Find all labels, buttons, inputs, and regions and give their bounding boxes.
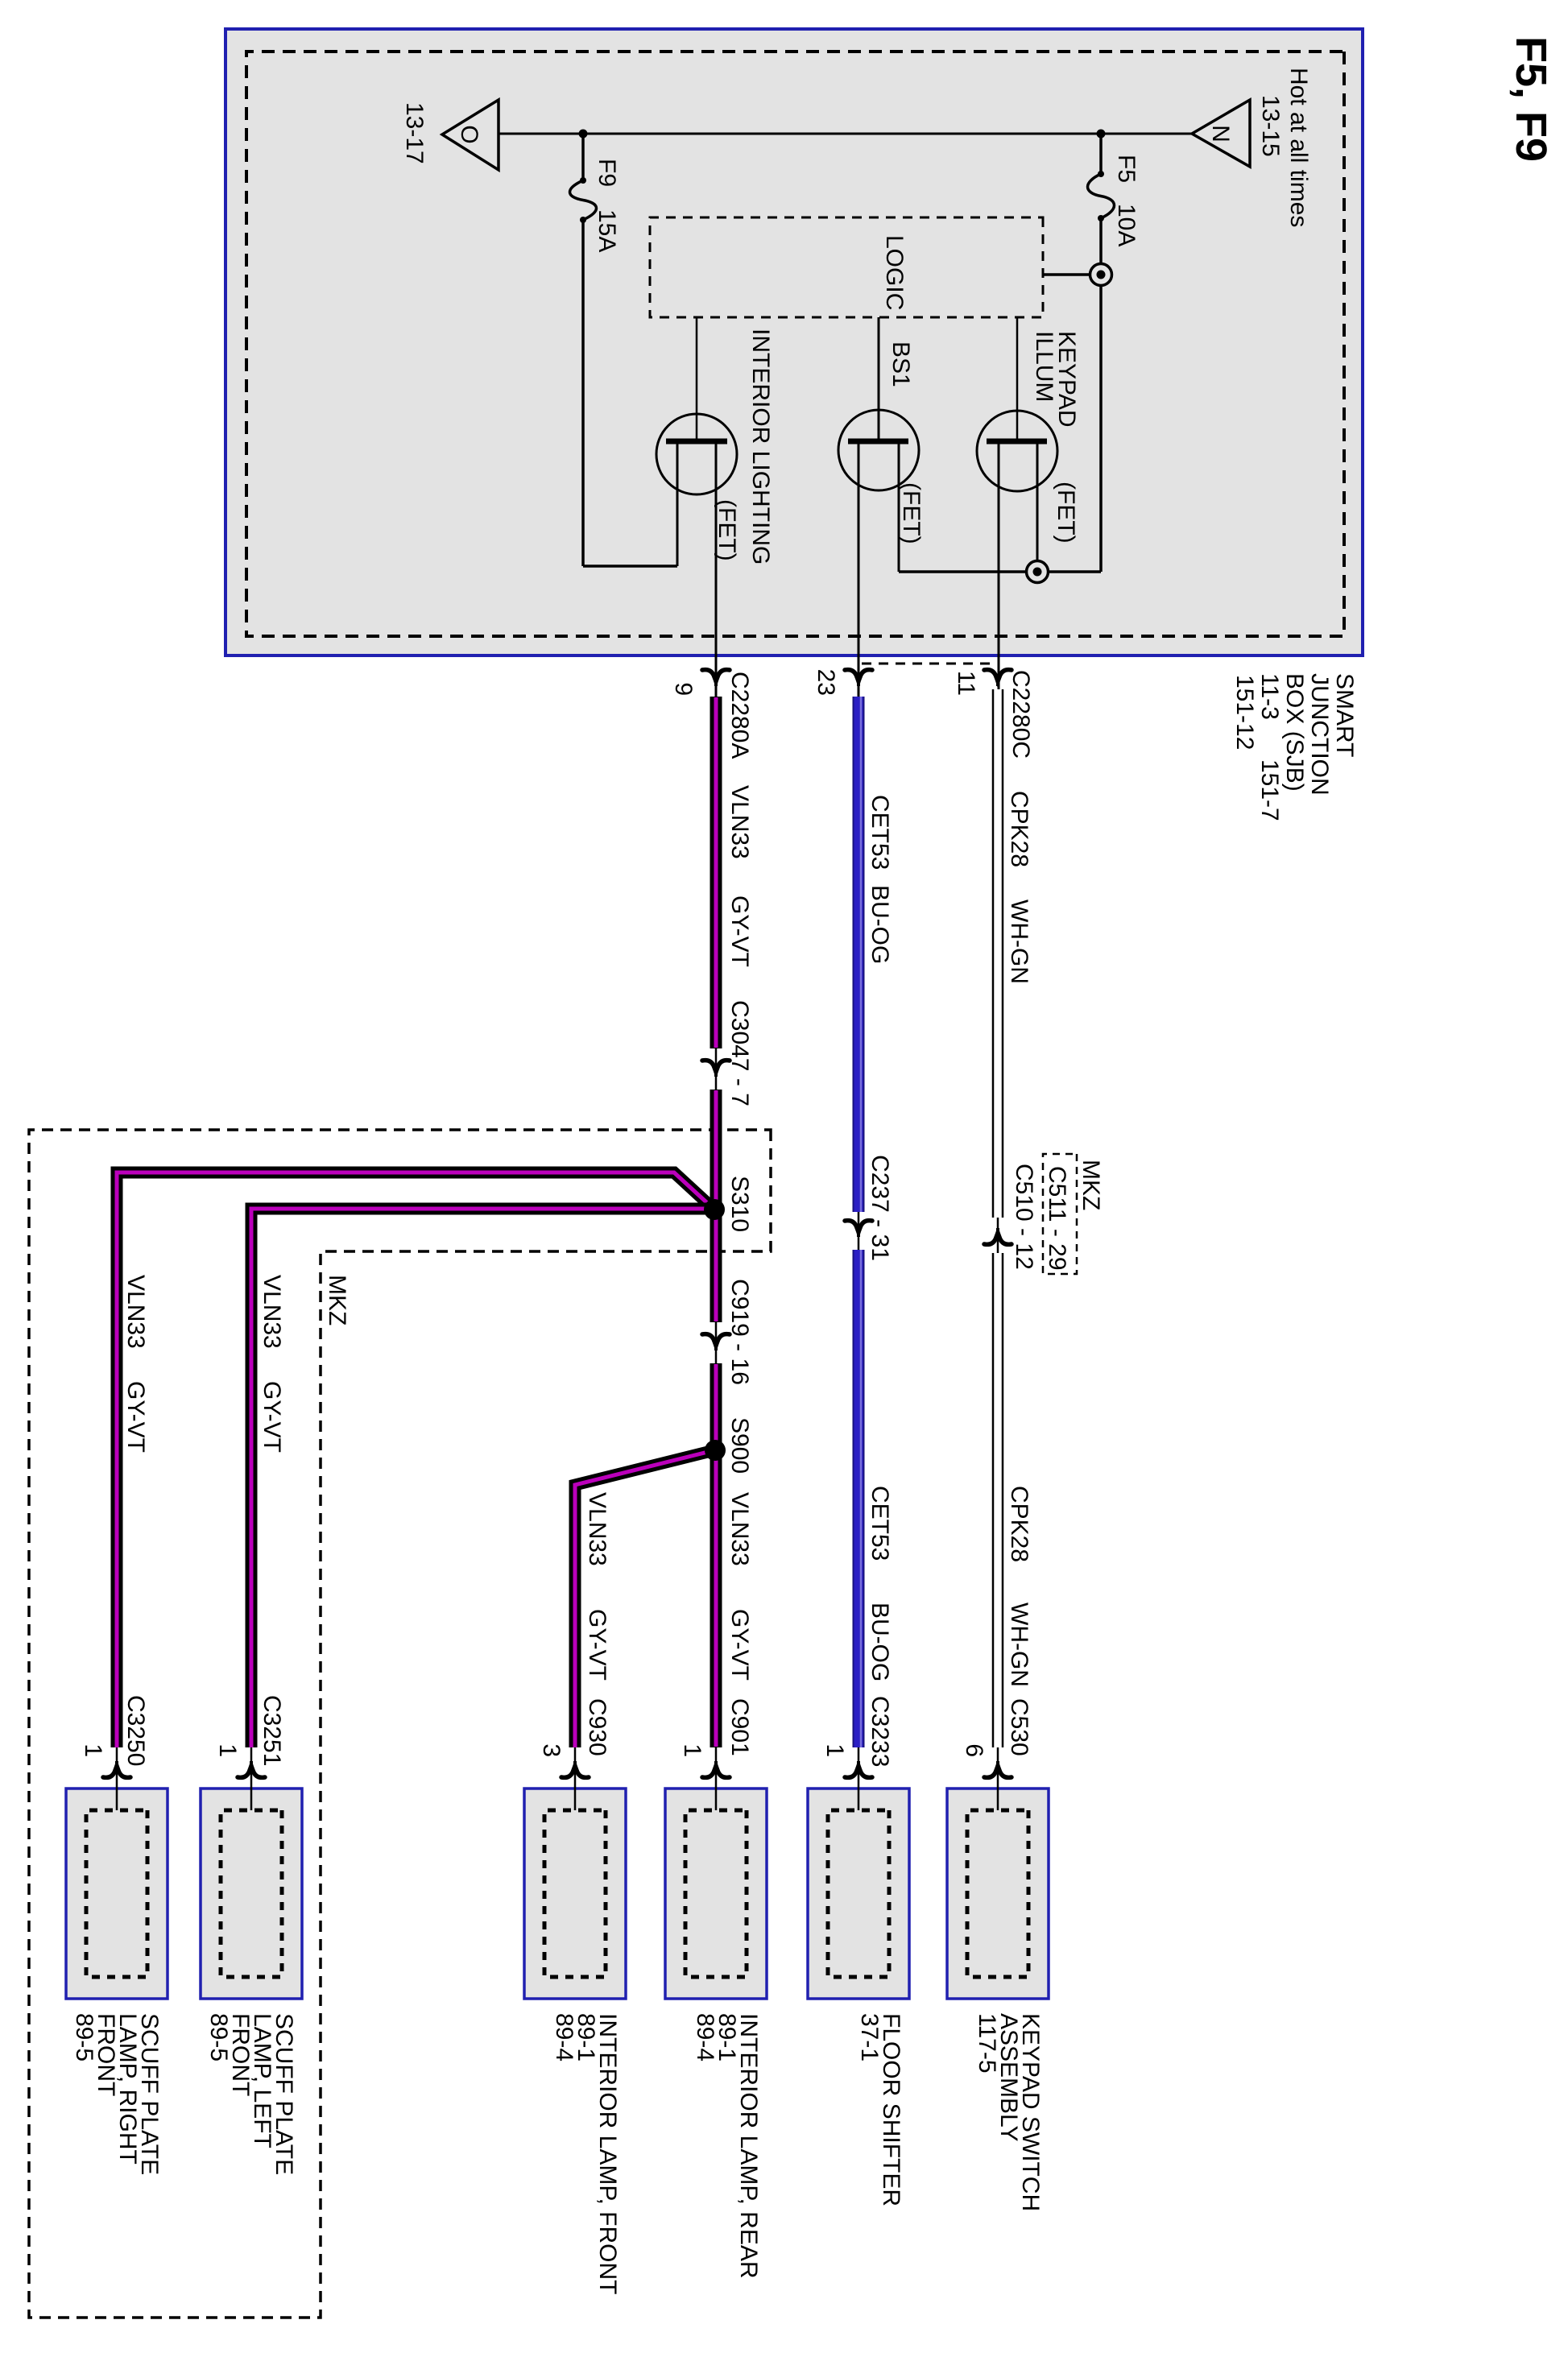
svg-text:C930: C930 (584, 1698, 610, 1756)
svg-text:VLN33: VLN33 (726, 785, 753, 859)
svg-text:1: 1 (679, 1743, 705, 1757)
svg-text:(FET): (FET) (1053, 482, 1079, 544)
svg-text:MKZ: MKZ (1078, 1160, 1104, 1210)
svg-text:C2280A: C2280A (726, 672, 753, 759)
svg-text:89-5: 89-5 (71, 2013, 97, 2061)
svg-text:89-5: 89-5 (205, 2013, 232, 2061)
svg-text:S310: S310 (726, 1176, 753, 1232)
svg-text:JUNCTION: JUNCTION (1306, 673, 1333, 796)
svg-text:C3251: C3251 (259, 1695, 285, 1766)
svg-text:89-4: 89-4 (692, 2013, 718, 2061)
svg-text:11: 11 (953, 671, 979, 696)
svg-text:C3250: C3250 (122, 1695, 149, 1766)
svg-text:89-4: 89-4 (551, 2013, 577, 2061)
svg-text:WH-GN: WH-GN (1006, 899, 1032, 984)
svg-text:CET53: CET53 (867, 1486, 893, 1561)
svg-text:37-1: 37-1 (856, 2013, 883, 2061)
svg-text:13-17: 13-17 (401, 102, 428, 164)
svg-text:N: N (1207, 125, 1234, 143)
svg-text:10A: 10A (1113, 204, 1140, 246)
svg-text:GY-VT: GY-VT (259, 1381, 285, 1453)
svg-text:C511 - 29: C511 - 29 (1044, 1166, 1070, 1271)
svg-text:Hot at all times: Hot at all times (1285, 68, 1312, 227)
svg-text:C919 - 16: C919 - 16 (726, 1279, 753, 1385)
svg-text:C530: C530 (1006, 1698, 1032, 1756)
svg-text:GY-VT: GY-VT (726, 1609, 753, 1681)
svg-text:15A: 15A (594, 209, 620, 252)
svg-text:GY-VT: GY-VT (122, 1381, 149, 1453)
svg-text:SMART: SMART (1331, 673, 1358, 757)
svg-text:151-12: 151-12 (1231, 675, 1258, 750)
svg-text:WH-GN: WH-GN (1006, 1602, 1032, 1687)
svg-text:GY-VT: GY-VT (584, 1609, 610, 1681)
svg-text:CPK28: CPK28 (1006, 1486, 1032, 1562)
svg-text:F5, F9: F5, F9 (1507, 36, 1555, 162)
svg-text:C3047 - 7: C3047 - 7 (726, 1000, 753, 1106)
svg-text:CPK28: CPK28 (1006, 791, 1032, 867)
svg-text:VLN33: VLN33 (584, 1492, 610, 1566)
svg-text:GY-VT: GY-VT (726, 895, 753, 967)
svg-text:9: 9 (670, 682, 697, 696)
svg-text:VLN33: VLN33 (726, 1492, 753, 1566)
svg-text:117-5: 117-5 (974, 2013, 1000, 2074)
svg-text:3: 3 (538, 1743, 565, 1757)
svg-text:CET53: CET53 (867, 795, 893, 870)
svg-text:C3233: C3233 (867, 1696, 893, 1767)
svg-text:(FET): (FET) (714, 499, 740, 561)
svg-text:1: 1 (214, 1743, 241, 1757)
svg-text:BU-OG: BU-OG (867, 885, 893, 964)
svg-text:INTERIOR LIGHTING: INTERIOR LIGHTING (747, 329, 774, 564)
svg-text:13-15: 13-15 (1257, 95, 1284, 157)
svg-text:11-3: 11-3 (1256, 673, 1283, 720)
svg-text:151-7: 151-7 (1256, 759, 1283, 821)
svg-text:LOGIC: LOGIC (881, 235, 908, 310)
svg-text:F5: F5 (1113, 155, 1140, 183)
svg-text:C237 - 31: C237 - 31 (867, 1155, 893, 1261)
svg-text:1: 1 (821, 1743, 848, 1757)
svg-text:BU-OG: BU-OG (867, 1602, 893, 1681)
svg-text:1: 1 (80, 1743, 106, 1757)
svg-text:VLN33: VLN33 (259, 1275, 285, 1349)
svg-text:BOX (SJB): BOX (SJB) (1281, 673, 1308, 792)
svg-text:C901: C901 (726, 1698, 753, 1756)
svg-text:MKZ: MKZ (324, 1275, 350, 1325)
svg-text:ILLUM: ILLUM (1031, 331, 1057, 402)
svg-text:C2280C: C2280C (1007, 670, 1034, 759)
svg-text:BS1: BS1 (887, 341, 914, 387)
svg-text:23: 23 (813, 669, 839, 696)
svg-text:6: 6 (961, 1743, 987, 1757)
svg-text:F9: F9 (594, 159, 620, 187)
svg-text:C510 - 12: C510 - 12 (1011, 1164, 1037, 1270)
svg-text:(FET): (FET) (898, 482, 925, 544)
svg-text:S900: S900 (726, 1417, 753, 1474)
svg-text:VLN33: VLN33 (122, 1275, 149, 1349)
svg-text:O: O (456, 125, 482, 143)
